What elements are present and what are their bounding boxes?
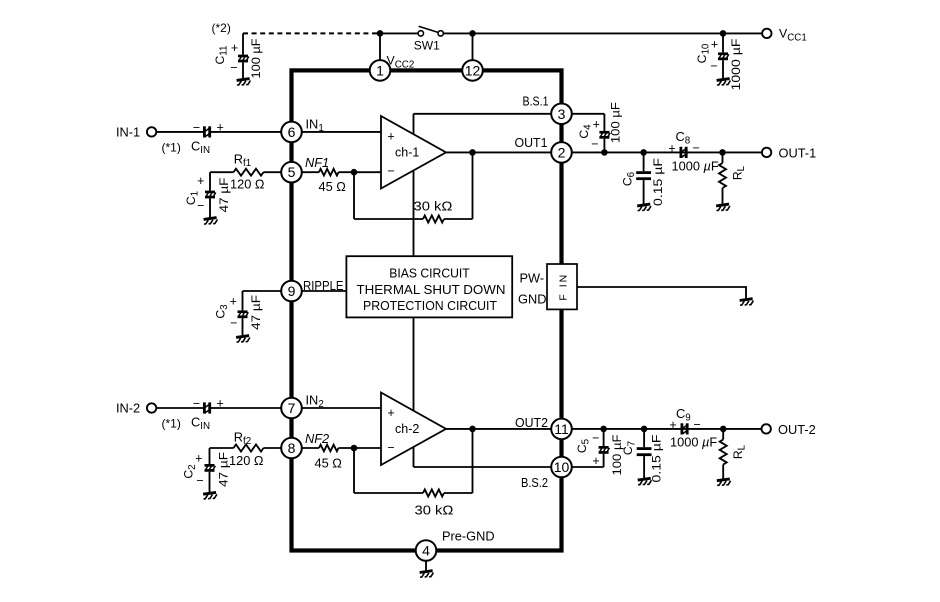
svg-text:OUT-2: OUT-2 — [778, 422, 816, 437]
svg-text:12: 12 — [465, 62, 481, 78]
svg-text:1000 µF: 1000 µF — [670, 434, 717, 449]
wire Rf2 to pin 8 — [264, 447, 282, 449]
wire B.S.1 horizontal to pin 3 — [414, 113, 552, 115]
svg-text:+: + — [387, 406, 394, 420]
wire feedback bottom ch1 — [354, 218, 423, 220]
svg-text:−: − — [694, 418, 701, 432]
terminal VCC1 — [762, 29, 771, 38]
svg-text:PW-: PW- — [520, 271, 545, 286]
svg-text:OUT1: OUT1 — [515, 135, 548, 150]
svg-text:1: 1 — [376, 62, 384, 78]
svg-text:B.S.2: B.S.2 — [521, 475, 548, 490]
node C4 junction — [601, 149, 608, 156]
svg-text:45 Ω: 45 Ω — [319, 179, 347, 194]
svg-text:NF1: NF1 — [305, 155, 329, 170]
wire C2 to ground — [209, 472, 211, 493]
svg-text:120 Ω: 120 Ω — [229, 453, 264, 468]
ground C6 — [637, 204, 651, 211]
pin 9 — [281, 281, 302, 302]
wire 30k to riser ch1 — [444, 218, 473, 220]
svg-text:+: + — [387, 130, 394, 144]
node pin12 riser junction — [469, 30, 476, 37]
node OUT1 feedback junction — [469, 149, 476, 156]
svg-text:9: 9 — [288, 283, 296, 299]
wire C4 riser — [603, 114, 605, 131]
wire pin 9 to C3 corner — [243, 290, 282, 292]
wire C4 to OUT1 — [603, 139, 605, 153]
wire pin 4 to ground — [425, 561, 427, 571]
svg-text:IN-2: IN-2 — [116, 401, 140, 416]
resistor Rf2 zigzag — [234, 445, 264, 452]
wire C5 to B.S.2 row — [603, 454, 605, 467]
svg-text:11: 11 — [554, 421, 569, 437]
svg-text:7: 7 — [288, 400, 296, 416]
svg-text:100 µF: 100 µF — [609, 102, 623, 143]
capacitor C1 47uF — [184, 174, 231, 213]
node C6 junction — [640, 149, 647, 156]
svg-text:−: − — [230, 61, 237, 75]
wire C10 to ground — [722, 60, 724, 78]
capacitor C3 47uF — [214, 295, 263, 331]
svg-text:THERMAL SHUT DOWN: THERMAL SHUT DOWN — [357, 282, 506, 297]
node C7 junction — [641, 426, 648, 433]
svg-text:Pre-GND: Pre-GND — [442, 528, 495, 543]
node C5 junction — [600, 426, 607, 433]
svg-text:8: 8 — [288, 440, 296, 456]
pin 7 — [281, 398, 302, 419]
svg-text:1000 µF: 1000 µF — [672, 158, 719, 173]
ground pin 4 — [420, 571, 434, 578]
svg-text:(*1): (*1) — [162, 417, 181, 431]
wire pin 8 to 45ohm — [302, 447, 319, 449]
pin 1 — [370, 60, 391, 81]
ground RL1 — [716, 204, 730, 211]
pin 4 — [416, 540, 437, 561]
svg-text:OUT-1: OUT-1 — [779, 145, 817, 160]
svg-text:30 kΩ: 30 kΩ — [414, 199, 453, 214]
wire pin 7 to ch-2 + input — [302, 407, 381, 409]
wire pin 5 to 45ohm — [302, 171, 319, 173]
svg-text:(*2): (*2) — [212, 21, 231, 35]
capacitor C6 0.15uF — [621, 158, 666, 206]
wire pin 11 to OUT-2 terminal — [572, 428, 762, 430]
node NF1 junction — [351, 169, 358, 176]
svg-text:BIAS CIRCUIT: BIAS CIRCUIT — [389, 265, 470, 280]
svg-text:+: + — [217, 120, 224, 134]
svg-text:47 µF: 47 µF — [249, 295, 263, 330]
resistor RL1 lead top — [722, 152, 724, 163]
resistor 30k ch2 zigzag — [423, 490, 444, 497]
switch SW1 — [414, 26, 444, 52]
svg-text:100 µF: 100 µF — [249, 39, 263, 79]
IC body outline thick rectangle — [292, 70, 562, 550]
wire C10 riser — [722, 33, 724, 52]
wire pin 2 to OUT-1 terminal — [572, 151, 762, 153]
pin 12 — [462, 60, 483, 81]
wire feedback down ch2 — [353, 448, 355, 493]
svg-text:−: − — [230, 316, 237, 330]
pin 2 — [551, 142, 572, 163]
op-amp ch-1 — [381, 116, 446, 189]
svg-text:6: 6 — [288, 124, 296, 140]
node C10 junction — [720, 30, 727, 37]
ground C7 — [638, 478, 652, 485]
svg-text:+: + — [197, 174, 204, 188]
svg-text:OUT2: OUT2 — [515, 415, 548, 430]
wire B.S.1 riser through ch-1 to bias box — [413, 114, 415, 256]
wire pin 3 to C4 corner — [572, 113, 605, 115]
svg-text:+: + — [217, 396, 224, 410]
wire riser to pin 12 — [472, 33, 474, 61]
svg-text:−: − — [591, 137, 598, 151]
wire C_IN to pin 6 — [211, 131, 281, 133]
wire dashed VCC2 standby link — [243, 32, 380, 34]
wire IN-1 terminal to C_IN — [156, 131, 203, 133]
wire IN-2 terminal to C_IN — [156, 407, 203, 409]
wire ch-1 output to pin 2 — [446, 151, 551, 153]
terminal OUT-1 — [762, 148, 771, 157]
svg-text:0.15 µF: 0.15 µF — [650, 435, 664, 483]
svg-text:+: + — [593, 117, 600, 131]
svg-text:30 kΩ: 30 kΩ — [415, 503, 454, 518]
capacitor C5 100uF bootstrap 2 — [575, 431, 624, 476]
svg-text:4: 4 — [422, 543, 430, 559]
ground C10 — [717, 79, 731, 86]
wire dashed-link to SW1 — [380, 32, 418, 34]
svg-text:ch-2: ch-2 — [395, 422, 419, 436]
ground RL2 — [717, 479, 731, 486]
svg-text:+: + — [231, 41, 238, 55]
pin 8 — [281, 438, 302, 459]
capacitor C7 0.15uF — [621, 435, 664, 483]
svg-text:45 Ω: 45 Ω — [315, 455, 343, 470]
svg-text:120 Ω: 120 Ω — [230, 176, 265, 191]
wire 30k to riser ch2 — [444, 492, 473, 494]
wire riser to pin 1 — [379, 33, 381, 61]
resistor RL2 lead top — [722, 429, 724, 440]
svg-text:−: − — [196, 474, 203, 488]
svg-text:5: 5 — [288, 164, 296, 180]
wire feedback riser ch1 — [472, 152, 474, 219]
wire C5 to pin 10 — [572, 466, 604, 468]
ground FIN — [740, 299, 754, 306]
capacitor C11 100uF — [213, 39, 263, 79]
wire C3 to ground — [242, 318, 244, 335]
capacitor C2 47uF — [182, 452, 231, 488]
svg-text:10: 10 — [554, 459, 570, 475]
svg-text:−: − — [387, 164, 394, 178]
wire C3 riser — [242, 291, 244, 310]
ground C1 — [204, 218, 218, 225]
resistor Rf1 zigzag — [234, 169, 264, 176]
svg-text:3: 3 — [558, 106, 566, 122]
svg-text:−: − — [197, 199, 204, 213]
svg-text:+: + — [592, 454, 599, 468]
pin 11 — [551, 419, 572, 440]
svg-text:1000 µF: 1000 µF — [729, 39, 743, 91]
wire C5 riser from OUT2 — [603, 429, 605, 446]
svg-text:+: + — [195, 452, 202, 466]
svg-text:−: − — [592, 431, 599, 445]
svg-text:GND: GND — [518, 292, 546, 307]
wire feedback bottom ch2 — [354, 492, 423, 494]
terminal IN-2 — [147, 403, 156, 412]
capacitor C4 100uF bootstrap 1 — [577, 102, 623, 151]
wire C11 riser — [242, 33, 244, 54]
svg-text:+: + — [711, 37, 718, 51]
wire pin 6 to ch-1 + input — [302, 131, 381, 133]
svg-text:+: + — [230, 295, 237, 309]
svg-text:−: − — [693, 141, 700, 155]
svg-text:−: − — [193, 396, 200, 410]
node RL1 junction — [719, 149, 726, 156]
resistor RL2 lead bottom — [722, 465, 724, 480]
capacitor C8 1000uF output 1 — [668, 129, 719, 173]
svg-text:B.S.1: B.S.1 — [523, 93, 549, 108]
capacitor C_IN channel 1 — [191, 120, 224, 156]
svg-text:47 µF: 47 µF — [217, 178, 231, 213]
svg-text:−: − — [193, 120, 200, 134]
wire C2 riser — [209, 448, 211, 464]
svg-text:ch-1: ch-1 — [395, 146, 419, 160]
bias circuit box U-internal — [346, 256, 512, 317]
node RL2 junction — [720, 426, 727, 433]
svg-text:RIPPLE: RIPPLE — [303, 278, 344, 293]
wire B.S.2 horizontal to pin 10 — [414, 466, 552, 468]
capacitor C10 1000uF — [695, 37, 743, 90]
wire 45ohm to ch-2 - input — [339, 447, 382, 449]
svg-text:0.15 µF: 0.15 µF — [651, 158, 665, 206]
pin 10 — [551, 457, 572, 478]
svg-text:IN-1: IN-1 — [116, 125, 140, 140]
svg-text:−: − — [710, 59, 717, 73]
wire C_IN2 to pin 7 — [211, 407, 281, 409]
wire feedback down ch1 — [353, 172, 355, 219]
terminal IN-1 — [147, 127, 156, 136]
node NF2 junction — [351, 445, 358, 452]
wire C1 corner to Rf1 — [210, 171, 234, 173]
wire feedback riser ch2 — [472, 429, 474, 493]
wire C7 riser — [643, 429, 645, 447]
op-amp ch-2 — [381, 393, 446, 466]
wire C6 to ground — [643, 180, 645, 204]
svg-text:PROTECTION CIRCUIT: PROTECTION CIRCUIT — [363, 298, 497, 313]
resistor 45ohm ch1 zigzag — [319, 169, 339, 176]
resistor RL2 zigzag — [720, 440, 727, 465]
wire pin 9 to bias box — [302, 290, 347, 292]
wire FIN tab to ground — [577, 287, 746, 299]
wire Rf1 to pin 5 — [264, 171, 282, 173]
pin 3 — [551, 104, 572, 125]
resistor RL1 lead bottom — [722, 188, 724, 204]
wire C7 to ground — [643, 456, 645, 478]
wire ch-2 output to pin 11 — [446, 428, 551, 430]
terminal OUT-2 — [762, 424, 771, 433]
wire C2 corner to Rf2 — [210, 447, 234, 449]
wire C1 riser — [209, 172, 211, 190]
capacitor C9 1000uF output 2 — [669, 406, 717, 449]
wire 45ohm to ch-1 - input — [339, 171, 382, 173]
node dashed-SW junction — [377, 30, 384, 37]
svg-text:2: 2 — [558, 144, 566, 160]
wire bias box to ch-2 riser / B.S.2 — [413, 317, 415, 467]
svg-text:SW1: SW1 — [414, 38, 440, 52]
ground C11 — [237, 79, 251, 86]
node OUT2 feedback junction — [469, 426, 476, 433]
svg-text:F IN: F IN — [557, 273, 569, 301]
svg-text:NF2: NF2 — [305, 431, 329, 446]
FIN heatsink tab — [547, 264, 577, 309]
wire C1 to ground — [209, 198, 211, 217]
resistor RL1 zigzag — [719, 163, 726, 188]
pin 6 — [281, 122, 302, 143]
wire SW1 to VCC1 terminal — [443, 32, 762, 34]
svg-text:−: − — [387, 441, 394, 455]
ground C2 — [203, 492, 217, 499]
wire C11 to ground — [242, 62, 244, 78]
capacitor C_IN channel 2 — [191, 396, 224, 432]
svg-text:(*1): (*1) — [162, 141, 181, 155]
wire C6 riser — [643, 152, 645, 171]
pin 5 — [281, 162, 302, 183]
resistor 45ohm ch2 zigzag — [319, 445, 339, 452]
resistor 30k ch1 zigzag — [423, 216, 444, 223]
ground C3 — [236, 336, 250, 343]
